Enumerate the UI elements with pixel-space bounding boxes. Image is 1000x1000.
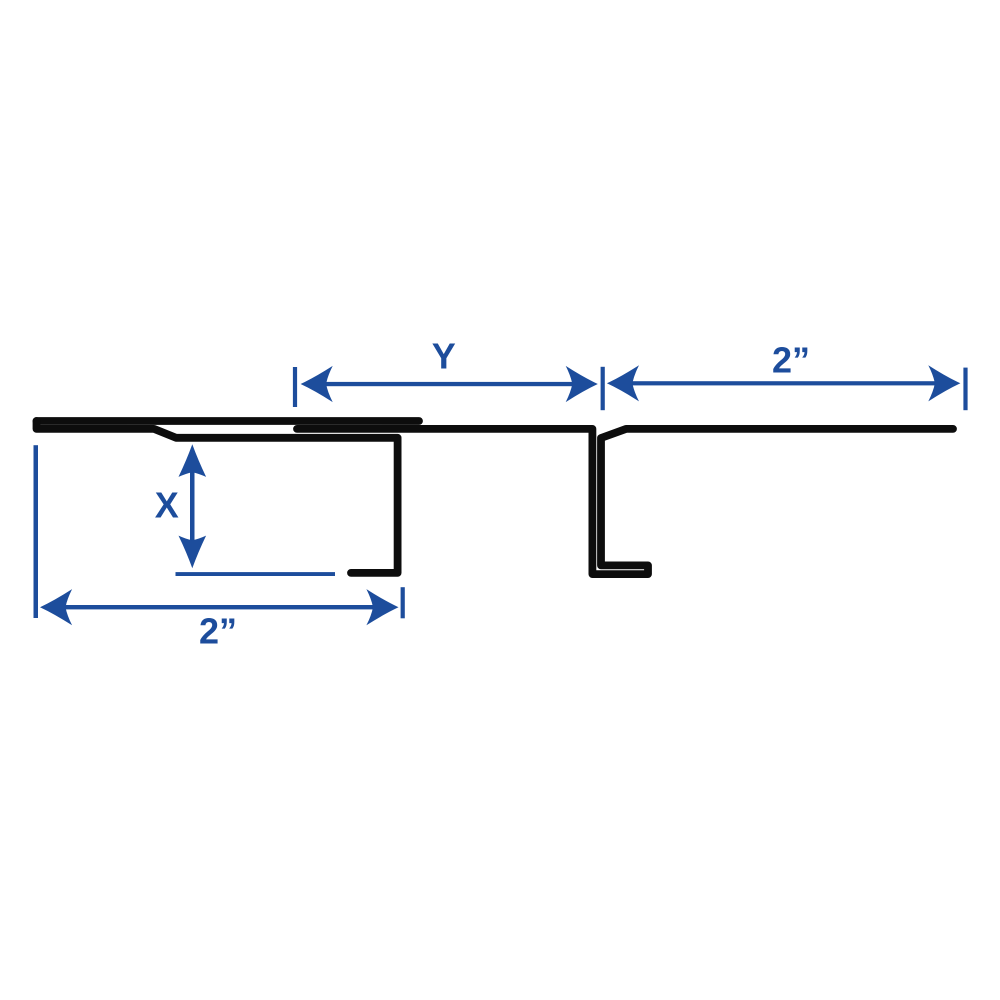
dimension 2in right: right arrowhead	[928, 365, 960, 401]
svg-text:2”: 2”	[772, 340, 810, 381]
dimension 2in bottom: left arrowhead	[40, 589, 72, 625]
receiver channel: top lap, down leg, bottom hem fold, return leg, kink, right flange	[297, 429, 953, 574]
svg-text:X: X	[155, 485, 179, 526]
panel sheet body: hem return, slope, web, vertical leg, bottom foot	[37, 421, 398, 573]
dimension Y / 2in shared middle tick	[601, 367, 605, 410]
dimension Y: left extension tick	[293, 367, 297, 407]
dimension 2in right: right extension tick	[963, 368, 967, 411]
svg-text:2”: 2”	[199, 611, 237, 652]
dimension 2in bottom: shaft	[48, 605, 392, 609]
dimension X: down arrowhead	[179, 536, 207, 569]
dimension 2in bottom: right extension tick	[401, 587, 405, 618]
svg-text:Y: Y	[432, 336, 456, 377]
panel sheet top hem flange	[37, 417, 420, 425]
dimension X: up arrowhead	[179, 444, 207, 477]
dimension X: shaft	[190, 450, 195, 562]
dimension 2in bottom: left extension line	[34, 445, 39, 618]
dimension 2in right: left arrowhead	[607, 365, 639, 401]
dimension X: bottom extension line	[176, 572, 336, 576]
dimension 2in bottom: right arrowhead	[366, 589, 398, 625]
dimension Y: right arrowhead	[566, 366, 598, 402]
dimension Y: left arrowhead	[301, 366, 333, 402]
dimension Y: shaft	[310, 382, 590, 386]
dimension 2in right: shaft	[615, 381, 953, 385]
